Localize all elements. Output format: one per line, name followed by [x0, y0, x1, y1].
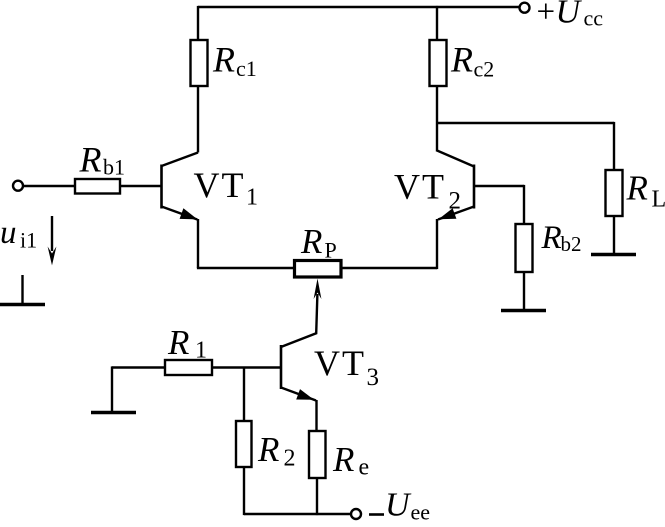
svg-text:b1: b1: [103, 155, 125, 180]
terminal +Ucc: [520, 3, 530, 13]
svg-text:R: R: [79, 140, 102, 180]
svg-text:VT: VT: [314, 343, 366, 383]
wire left top vertical: [197, 6, 199, 40]
resistor RL: [606, 170, 623, 216]
transistor VT3 emitter diagonal: [281, 388, 316, 401]
wire R1 to VT3 base: [112, 366, 281, 368]
label Rc2: [450, 40, 494, 82]
svg-text:+: +: [537, 0, 556, 30]
wire RP to right: [341, 267, 438, 269]
svg-text:c1: c1: [236, 56, 257, 81]
arrow ui1: [51, 216, 53, 251]
resistor R2: [236, 421, 252, 467]
svg-text:c2: c2: [474, 57, 495, 82]
wire down to Rb2: [523, 185, 525, 224]
wire R2 to bottom: [243, 467, 245, 515]
wire bottom left to RP: [197, 267, 295, 269]
label Re: [332, 440, 369, 481]
label Rc1: [212, 40, 257, 82]
label Rb2: [541, 220, 582, 256]
transistor VT2 collector diagonal: [437, 151, 474, 167]
svg-text:P: P: [325, 238, 337, 263]
wire base node to R2: [243, 368, 245, 422]
label ui1: [0, 215, 37, 253]
wire RL to ground: [613, 216, 615, 253]
label -Uee: [369, 487, 430, 525]
transistor VT2 emitter diagonal: [438, 207, 474, 220]
terminal -Uee: [351, 509, 361, 519]
resistor Rc1: [191, 40, 208, 86]
svg-text:U: U: [556, 0, 583, 31]
potentiometer wiper arrow: [282, 294, 318, 347]
svg-text:i1: i1: [20, 228, 37, 253]
label Rb1: [79, 140, 126, 180]
svg-text:R: R: [257, 430, 279, 469]
svg-text:cc: cc: [584, 6, 604, 31]
svg-text:VT: VT: [394, 167, 446, 207]
terminal input: [13, 181, 23, 191]
wire top to Rc2: [436, 6, 438, 40]
ground RL: [591, 253, 636, 257]
svg-text:1: 1: [195, 338, 207, 364]
wire Rc1 to VT1 collector: [197, 86, 199, 153]
transistor VT2 base bar: [473, 165, 476, 209]
ground input source: [21, 275, 23, 304]
label +Ucc: [537, 0, 604, 31]
svg-text:R: R: [212, 40, 235, 80]
wire VT2 emitter down: [436, 219, 438, 269]
svg-text:u: u: [0, 215, 17, 251]
svg-text:R: R: [332, 440, 354, 479]
resistor Rb1: [75, 179, 120, 194]
resistor Re: [309, 431, 326, 478]
svg-text:R: R: [300, 222, 322, 261]
label RP: [300, 222, 337, 263]
wire Re to bottom: [316, 478, 318, 515]
label RL: [626, 169, 665, 213]
label VT1: [194, 165, 259, 211]
label VT2: [394, 167, 461, 215]
svg-text:R: R: [167, 323, 189, 362]
wire Rc2 bottom to VT2: [436, 86, 438, 152]
svg-text:e: e: [359, 455, 370, 481]
wire node to RL: [437, 122, 614, 124]
wire VT1 emitter down: [197, 219, 199, 268]
svg-text:R: R: [450, 40, 473, 80]
wire VT2 base to Rb2: [475, 185, 525, 187]
transistor VT1 emitter diagonal: [162, 207, 198, 220]
ground R1: [91, 411, 136, 415]
label R2: [257, 430, 296, 472]
transistor VT3 base bar: [280, 345, 283, 389]
svg-text:b2: b2: [561, 232, 582, 256]
svg-text:1: 1: [246, 185, 258, 211]
transistor Q VT1 collector diagonal: [162, 153, 199, 167]
transistor VT1 base bar: [160, 165, 163, 209]
wire VT3 emitter to Re: [315, 400, 317, 431]
wire R1 left down: [111, 366, 113, 411]
wire bottom to -Uee: [244, 513, 352, 515]
svg-text:L: L: [652, 187, 665, 213]
svg-text:U: U: [385, 487, 412, 524]
svg-text:R: R: [626, 169, 648, 208]
label VT3: [314, 343, 379, 391]
svg-text:R: R: [541, 220, 562, 256]
wire top rail: [198, 6, 520, 8]
resistor Rc2: [430, 40, 447, 86]
svg-text:3: 3: [367, 364, 380, 391]
svg-text:2: 2: [284, 446, 296, 472]
svg-text:VT: VT: [194, 165, 246, 205]
potentiometer RP: [295, 261, 342, 278]
wire Rb2 to ground: [523, 272, 525, 309]
resistor Rb2: [516, 224, 533, 272]
wire input to VT1 base: [23, 185, 161, 187]
wire RL down: [613, 122, 615, 170]
resistor R1: [165, 360, 212, 375]
svg-text:ee: ee: [411, 500, 431, 525]
label R1: [167, 323, 207, 364]
svg-text:2: 2: [449, 188, 462, 215]
ground Rb2: [501, 309, 546, 313]
